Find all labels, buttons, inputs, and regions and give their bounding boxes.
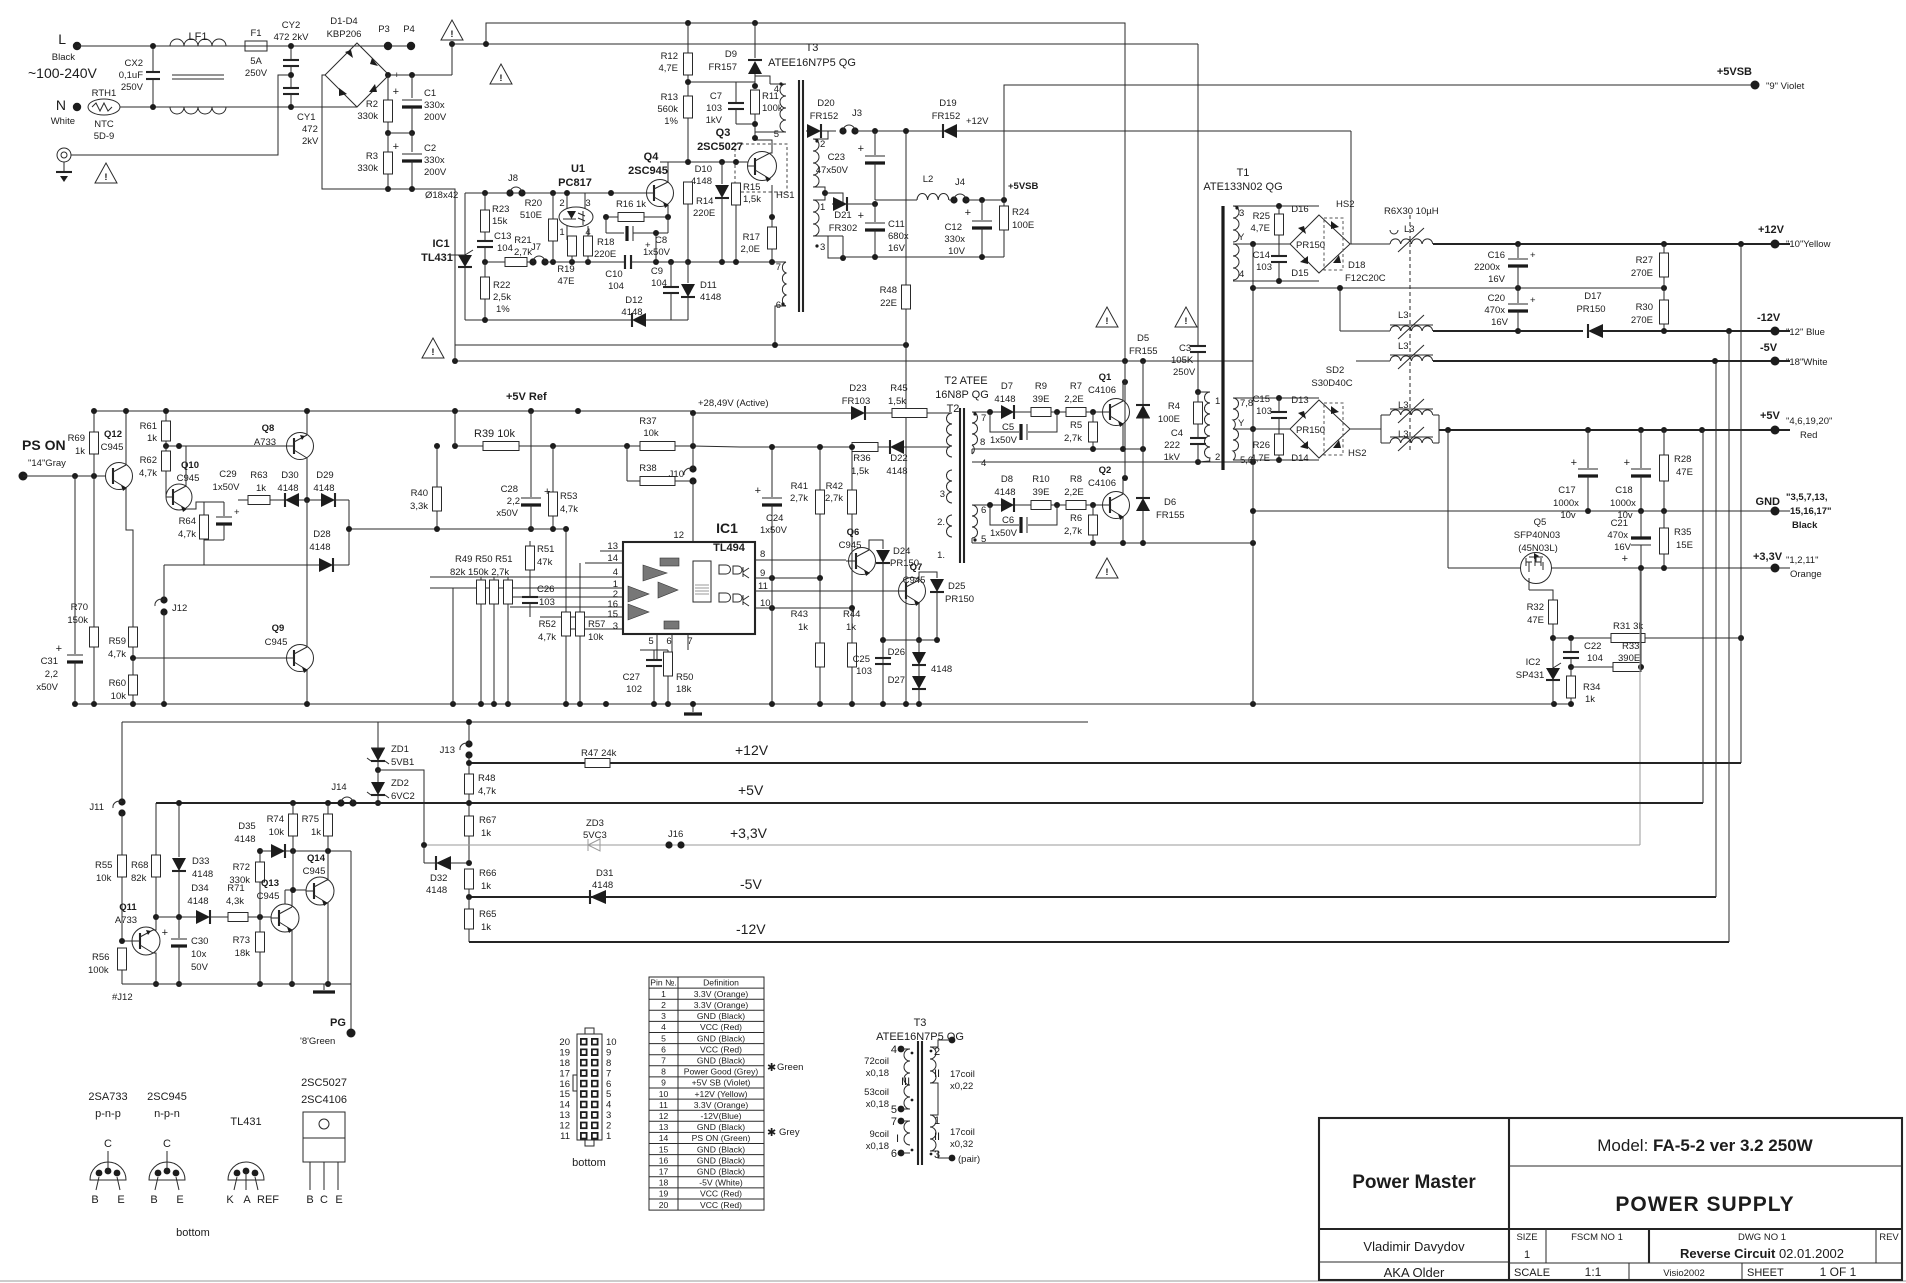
svg-text:Q12: Q12 xyxy=(104,429,122,440)
svg-text:18: 18 xyxy=(559,1058,570,1069)
diode D30 4148 xyxy=(285,493,299,507)
resistor R32 xyxy=(1528,578,1530,590)
IC1 TL494 box xyxy=(623,542,755,634)
svg-text:5: 5 xyxy=(661,1033,666,1043)
svg-text:Q13: Q13 xyxy=(261,878,279,889)
TL494 internal out transistor 2 xyxy=(743,595,749,606)
svg-text:4148: 4148 xyxy=(994,394,1015,405)
TL494 internal opamp 2 xyxy=(658,582,678,598)
svg-text:10k: 10k xyxy=(643,428,659,439)
svg-text:+: + xyxy=(234,507,240,518)
svg-text:16V: 16V xyxy=(1491,317,1509,328)
svg-text:4,7k: 4,7k xyxy=(478,786,496,797)
svg-text:x0,18: x0,18 xyxy=(866,1099,889,1110)
terminal L xyxy=(73,42,81,50)
svg-text:J3: J3 xyxy=(852,108,862,119)
resistor R37 xyxy=(640,442,675,451)
T3 core xyxy=(798,80,800,312)
wire N line xyxy=(120,106,357,108)
wire Q8 emitter xyxy=(306,458,308,500)
wire +3,3V rail gray xyxy=(424,844,1640,846)
terminal GND xyxy=(1771,507,1780,516)
svg-text:4: 4 xyxy=(774,84,779,95)
svg-text:1x50V: 1x50V xyxy=(760,525,788,536)
svg-text:C7: C7 xyxy=(710,91,722,102)
svg-text:bottom: bottom xyxy=(176,1227,210,1239)
svg-text:2,7k: 2,7k xyxy=(825,493,843,504)
svg-text:R14: R14 xyxy=(696,196,713,207)
svg-text:C4: C4 xyxy=(1171,428,1183,439)
svg-text:1k: 1k xyxy=(147,433,157,444)
svg-text:+: + xyxy=(393,86,399,98)
wire -12V rail xyxy=(469,941,1729,943)
svg-text:F12C20C: F12C20C xyxy=(1345,273,1386,284)
svg-text:+: + xyxy=(1571,457,1577,469)
ground earth symbol xyxy=(63,162,65,172)
svg-text:C18: C18 xyxy=(1615,485,1632,496)
svg-text:2,2: 2,2 xyxy=(45,669,58,680)
svg-text:472 2kV: 472 2kV xyxy=(274,32,310,43)
svg-text:16: 16 xyxy=(559,1079,570,1090)
T1 sec winding 7,8-Y-5,6 xyxy=(1233,398,1239,429)
svg-text:330x: 330x xyxy=(424,100,445,111)
wire bridge- return xyxy=(322,75,455,345)
svg-text:+: + xyxy=(393,141,399,153)
TL494 internal out transistor 1 xyxy=(743,567,749,578)
capacitor C11 polar xyxy=(872,201,878,207)
svg-text:C: C xyxy=(104,1138,112,1150)
svg-text:Y: Y xyxy=(1238,232,1245,243)
svg-text:x50V: x50V xyxy=(496,508,518,519)
svg-text:Pin №.: Pin №. xyxy=(650,978,676,988)
svg-text:Q3: Q3 xyxy=(716,127,731,139)
svg-text:Reverse Circuit 02.01.2002: Reverse Circuit 02.01.2002 xyxy=(1680,1246,1844,1261)
svg-text:J8: J8 xyxy=(508,173,518,184)
svg-text:3.3V (Orange): 3.3V (Orange) xyxy=(694,1000,749,1010)
svg-text:R20: R20 xyxy=(525,198,542,209)
svg-text:53coil: 53coil xyxy=(864,1087,889,1098)
svg-text:1: 1 xyxy=(559,227,564,238)
capacitor C13 xyxy=(477,240,493,242)
capacitor C28 xyxy=(530,411,532,497)
wire bridge+ to C1 xyxy=(389,74,452,76)
wire +5V row y430 xyxy=(1439,429,1790,431)
capacitor C24 xyxy=(771,447,773,497)
svg-text:220E: 220E xyxy=(594,249,616,260)
svg-text:LF1: LF1 xyxy=(189,31,208,43)
wire primary return xyxy=(455,344,906,346)
svg-text:FR152: FR152 xyxy=(932,111,961,122)
svg-text:GND (Black): GND (Black) xyxy=(697,1056,745,1066)
svg-text:C945: C945 xyxy=(177,473,200,484)
T1 core xyxy=(1221,206,1224,470)
chassis ground terminal xyxy=(57,148,71,162)
svg-text:330k: 330k xyxy=(229,875,250,886)
svg-text:-12V: -12V xyxy=(736,921,766,937)
svg-text:16N8P QG: 16N8P QG xyxy=(935,389,989,401)
svg-text:IC2: IC2 xyxy=(1526,657,1541,668)
svg-text:1000x: 1000x xyxy=(1610,498,1636,509)
svg-text:16V: 16V xyxy=(1488,274,1506,285)
svg-text:p-n-p: p-n-p xyxy=(95,1108,121,1120)
capacitor C26 xyxy=(522,596,538,598)
warning triangles T1 xyxy=(1096,307,1118,327)
capacitor C15 xyxy=(1278,398,1280,411)
svg-text:+12V: +12V xyxy=(966,116,989,127)
svg-text:Q9: Q9 xyxy=(272,623,285,634)
svg-text:103: 103 xyxy=(1256,406,1272,417)
diode D9 FR157 xyxy=(752,20,758,26)
svg-text:C10: C10 xyxy=(605,269,622,280)
wire right verticals xyxy=(1702,430,1704,803)
svg-text:C22: C22 xyxy=(1584,641,1601,652)
svg-text:IC1: IC1 xyxy=(716,520,738,536)
wire D28 junction column xyxy=(348,500,350,565)
wire B+ row y361 xyxy=(455,360,1253,362)
svg-text:5D-9: 5D-9 xyxy=(94,131,115,142)
wire upper drive row y412 xyxy=(972,411,1103,413)
svg-text:200V: 200V xyxy=(424,167,447,178)
svg-text:P4: P4 xyxy=(403,24,415,35)
wire R49-51 top row xyxy=(429,576,431,578)
svg-text:7: 7 xyxy=(606,1068,611,1079)
svg-text:11: 11 xyxy=(560,1131,570,1142)
svg-text:R25: R25 xyxy=(1253,211,1270,222)
svg-text:+: + xyxy=(56,643,62,655)
svg-text:15E: 15E xyxy=(1676,540,1693,551)
svg-text:R30: R30 xyxy=(1636,302,1653,313)
svg-text:4148: 4148 xyxy=(192,869,213,880)
svg-text:R12: R12 xyxy=(661,51,678,62)
svg-text:J14: J14 xyxy=(331,782,346,793)
wire 3.3V sense gray vertical xyxy=(1639,571,1641,845)
svg-text:"18"White: "18"White xyxy=(1786,357,1828,368)
svg-text:R62: R62 xyxy=(140,455,157,466)
svg-text:PR150: PR150 xyxy=(1576,304,1605,315)
svg-text:270E: 270E xyxy=(1631,268,1653,279)
svg-text:Q6: Q6 xyxy=(847,527,860,538)
svg-text:4148: 4148 xyxy=(931,664,952,675)
svg-text:+12V: +12V xyxy=(735,742,769,758)
terminal +5VSB xyxy=(1751,81,1760,90)
svg-text:6: 6 xyxy=(891,1148,897,1160)
wire emitter row pin7 xyxy=(688,261,786,263)
diode D19 FR152 xyxy=(943,124,957,138)
svg-text:47E: 47E xyxy=(1676,467,1693,478)
diode D25 PR150 xyxy=(919,572,937,580)
svg-text:22E: 22E xyxy=(880,298,897,309)
svg-text:R49 R50 R51: R49 R50 R51 xyxy=(455,554,513,565)
bridge rectifier D1-D4 KBP206 xyxy=(325,43,389,107)
wire Q7 emitter to D26 xyxy=(918,603,920,640)
svg-text:D6: D6 xyxy=(1164,497,1176,508)
resistor R66 xyxy=(465,869,474,889)
wire +12V rail xyxy=(469,762,1741,764)
svg-text:330x: 330x xyxy=(424,155,445,166)
diode D33 4148 xyxy=(178,803,180,857)
svg-text:-12V: -12V xyxy=(1757,312,1781,324)
svg-text:C14: C14 xyxy=(1253,250,1270,261)
wire C8 node down xyxy=(655,233,657,262)
svg-text:4,7E: 4,7E xyxy=(658,63,678,74)
resistor R33 390E xyxy=(1568,664,1574,670)
svg-text:100E: 100E xyxy=(1012,220,1034,231)
resistor R36 xyxy=(852,443,878,452)
svg-text:R75: R75 xyxy=(302,814,319,825)
svg-text:R44: R44 xyxy=(843,609,860,620)
svg-text:1k: 1k xyxy=(256,483,266,494)
resistor R61 xyxy=(165,411,167,421)
svg-text:1 OF 1: 1 OF 1 xyxy=(1820,1265,1857,1279)
svg-text:GND (Black): GND (Black) xyxy=(697,1144,745,1154)
svg-text:8: 8 xyxy=(980,437,985,448)
svg-text:CY2: CY2 xyxy=(282,20,300,31)
wire Q3 collector to pin5 xyxy=(755,140,772,153)
svg-text:A733: A733 xyxy=(254,437,276,448)
resistor R7 xyxy=(1066,408,1086,417)
svg-text:Q14: Q14 xyxy=(307,853,326,864)
capacitor C7 xyxy=(735,82,737,103)
svg-text:17coil: 17coil xyxy=(950,1127,975,1138)
sheet bottom border xyxy=(0,1280,1906,1282)
svg-text:SIZE: SIZE xyxy=(1516,1232,1537,1243)
svg-text:T3: T3 xyxy=(806,42,819,54)
svg-text:3,3k: 3,3k xyxy=(410,501,428,512)
wire U1 pins xyxy=(566,193,568,208)
svg-text:1x50V: 1x50V xyxy=(213,482,241,493)
svg-text:16: 16 xyxy=(659,1155,669,1165)
svg-text:2SA733: 2SA733 xyxy=(88,1091,127,1103)
svg-text:PR150: PR150 xyxy=(945,594,974,605)
svg-text:N: N xyxy=(56,97,66,113)
svg-text:D31: D31 xyxy=(596,868,613,879)
svg-text:1k: 1k xyxy=(846,622,856,633)
resistor R17 xyxy=(771,185,773,227)
resistor R68 xyxy=(155,803,157,855)
svg-text:B: B xyxy=(306,1194,313,1206)
svg-text:D28: D28 xyxy=(313,529,330,540)
wire top bus xyxy=(486,23,1125,382)
terminal +3,3V xyxy=(1771,564,1780,573)
wire B+ riser xyxy=(452,44,1198,75)
svg-text:3: 3 xyxy=(1239,208,1244,219)
svg-text:Ø18x42: Ø18x42 xyxy=(425,190,458,201)
terminal +5V xyxy=(1771,426,1780,435)
jumper J14 xyxy=(325,800,331,806)
resistor R18 xyxy=(584,236,593,256)
TL494 internal error amp 2 xyxy=(628,604,649,620)
svg-text:D25: D25 xyxy=(948,581,965,592)
svg-text:C13: C13 xyxy=(494,231,511,242)
svg-text:+5V Ref: +5V Ref xyxy=(506,391,547,403)
svg-text:C2: C2 xyxy=(424,143,436,154)
svg-text:R48: R48 xyxy=(880,285,897,296)
wire PG output xyxy=(350,851,352,1033)
resistor R21 xyxy=(485,261,505,263)
svg-text:15,16,17": 15,16,17" xyxy=(1790,506,1831,517)
svg-text:1k: 1k xyxy=(311,827,321,838)
svg-text:R21: R21 xyxy=(514,235,531,246)
svg-text:1k: 1k xyxy=(481,922,491,933)
diode D32 4148 xyxy=(423,845,425,863)
svg-text:SP431: SP431 xyxy=(1516,670,1545,681)
svg-text:47E: 47E xyxy=(558,276,575,287)
svg-text:R61: R61 xyxy=(140,421,157,432)
TL494 internal osc block xyxy=(693,561,711,602)
capacitor CY1 xyxy=(283,87,299,89)
T3 primary winding pins 4-5 xyxy=(780,84,786,132)
svg-text:D5: D5 xyxy=(1137,333,1149,344)
capacitor CY2 xyxy=(290,46,292,60)
svg-text:"3,5,7,13,: "3,5,7,13, xyxy=(1786,492,1827,503)
wire pins5,6 row xyxy=(1233,459,1319,461)
svg-text:R31 3k: R31 3k xyxy=(1613,621,1643,632)
node row mid xyxy=(385,130,391,136)
wire +12V drop to output xyxy=(1350,131,1352,244)
TL494 internal error amp 1 xyxy=(628,586,649,602)
capacitor C6 xyxy=(990,505,1019,525)
svg-text:50V: 50V xyxy=(191,962,209,973)
svg-text:3: 3 xyxy=(661,1011,666,1021)
capacitor C18 xyxy=(1640,430,1642,468)
svg-text:14: 14 xyxy=(559,1100,570,1111)
resistor R48 xyxy=(465,774,474,794)
svg-text:!: ! xyxy=(1105,567,1108,578)
svg-text:104: 104 xyxy=(608,281,624,292)
wire base row y500 xyxy=(238,499,284,501)
wire Q1 collector xyxy=(1123,382,1125,401)
svg-text:6VC2: 6VC2 xyxy=(391,791,415,802)
svg-text:250V: 250V xyxy=(121,82,144,93)
svg-text:!: ! xyxy=(450,29,453,40)
svg-text:7: 7 xyxy=(981,413,986,424)
T2 secondary 7-8 xyxy=(972,412,978,445)
resistor R71 4,3k xyxy=(228,913,248,922)
svg-text:ZD2: ZD2 xyxy=(391,778,409,789)
resistor R15 xyxy=(732,183,741,205)
warning triangle mid xyxy=(422,338,444,358)
svg-text:1: 1 xyxy=(820,202,825,213)
wire Q10 emitter row xyxy=(186,502,204,509)
svg-text:D24: D24 xyxy=(893,546,910,557)
svg-text:L3: L3 xyxy=(1398,310,1409,321)
diode D22 4148 xyxy=(878,446,890,448)
svg-text:+: + xyxy=(858,143,864,155)
svg-text:C29: C29 xyxy=(219,469,236,480)
svg-text:x0,32: x0,32 xyxy=(950,1139,973,1150)
svg-text:R27: R27 xyxy=(1636,255,1653,266)
svg-text:4148: 4148 xyxy=(187,896,208,907)
svg-text:5: 5 xyxy=(648,636,653,647)
capacitor C16 xyxy=(1515,241,1521,247)
svg-text:C945: C945 xyxy=(839,540,862,551)
svg-text:2: 2 xyxy=(606,1121,611,1132)
resistor R27 xyxy=(1661,241,1667,247)
wire +5Vref rail y411 xyxy=(94,410,693,412)
svg-text:DWG NO 1: DWG NO 1 xyxy=(1738,1232,1786,1243)
svg-text:-12V(Blue): -12V(Blue) xyxy=(700,1111,741,1121)
svg-text:D17: D17 xyxy=(1584,291,1601,302)
svg-text:+12V (Yellow): +12V (Yellow) xyxy=(695,1089,748,1099)
svg-text:R41: R41 xyxy=(791,481,808,492)
svg-text:330k: 330k xyxy=(357,163,378,174)
svg-text:R59: R59 xyxy=(109,636,126,647)
svg-text:102: 102 xyxy=(626,684,642,695)
capacitor C20 xyxy=(1517,288,1519,303)
svg-text:18: 18 xyxy=(659,1178,669,1188)
resistor R39 xyxy=(483,442,519,451)
svg-text:4,7E: 4,7E xyxy=(1250,223,1270,234)
svg-text:12: 12 xyxy=(559,1121,570,1132)
svg-text:Q11: Q11 xyxy=(119,902,137,913)
svg-text:Green: Green xyxy=(777,1062,803,1073)
wire +5V rail xyxy=(156,802,1703,804)
svg-text:10k: 10k xyxy=(588,632,604,643)
svg-text:C26: C26 xyxy=(537,584,554,595)
ground bus xyxy=(75,703,1573,705)
svg-text:x0,18: x0,18 xyxy=(866,1068,889,1079)
svg-text:HS2: HS2 xyxy=(1336,199,1354,210)
svg-text:2: 2 xyxy=(559,198,564,209)
svg-text:SCALE: SCALE xyxy=(1514,1267,1550,1279)
svg-text:VCC (Red): VCC (Red) xyxy=(700,1189,742,1199)
svg-text:E: E xyxy=(335,1194,342,1206)
svg-text:1: 1 xyxy=(606,1131,611,1142)
svg-text:D34: D34 xyxy=(191,883,208,894)
capacitor C25 xyxy=(882,640,884,658)
svg-text:D19: D19 xyxy=(939,98,956,109)
svg-text:C21: C21 xyxy=(1611,518,1628,529)
svg-text:C27: C27 xyxy=(623,672,640,683)
svg-text:D7: D7 xyxy=(1001,381,1013,392)
svg-text:T2 ATEE: T2 ATEE xyxy=(944,375,987,387)
fuse F1 xyxy=(245,41,267,51)
diode D34 4148 xyxy=(196,910,210,924)
T3 aux winding pins 7-6 xyxy=(782,262,786,306)
svg-text:HS2: HS2 xyxy=(1348,448,1366,459)
svg-text:R19: R19 xyxy=(557,264,574,275)
svg-text:C945: C945 xyxy=(265,637,288,648)
svg-text:C20: C20 xyxy=(1488,293,1505,304)
svg-text:J16: J16 xyxy=(668,829,683,840)
capacitor C27 xyxy=(653,650,655,660)
diode D24 PR150 xyxy=(869,540,883,550)
wire Q9 base row xyxy=(133,657,287,659)
svg-text:POWER SUPPLY: POWER SUPPLY xyxy=(1615,1193,1794,1216)
svg-text:C12: C12 xyxy=(945,222,962,233)
svg-text:D30: D30 xyxy=(281,470,298,481)
svg-text:4: 4 xyxy=(661,1022,666,1032)
svg-text:1x50V: 1x50V xyxy=(990,528,1018,539)
svg-text:TL494: TL494 xyxy=(713,542,746,554)
svg-text:R33: R33 xyxy=(1622,641,1639,652)
resistor R20 xyxy=(552,193,554,219)
TL494 internal gate 2 xyxy=(719,593,731,602)
wire ZD1/ZD2 node xyxy=(375,767,381,773)
svg-text:270E: 270E xyxy=(1631,315,1653,326)
svg-text:14: 14 xyxy=(607,553,618,564)
bus junction dots xyxy=(563,701,569,707)
svg-text:2200x: 2200x xyxy=(1474,262,1500,273)
capacitor C12 polar xyxy=(979,197,985,203)
svg-text:C945: C945 xyxy=(303,866,326,877)
svg-text:GND (Black): GND (Black) xyxy=(697,1033,745,1043)
svg-text:15: 15 xyxy=(659,1144,669,1154)
wire C7 bottom join xyxy=(736,123,755,125)
svg-text:!: ! xyxy=(104,172,107,183)
svg-text:II: II xyxy=(934,1131,940,1143)
svg-text:4,7E: 4,7E xyxy=(1250,453,1270,464)
